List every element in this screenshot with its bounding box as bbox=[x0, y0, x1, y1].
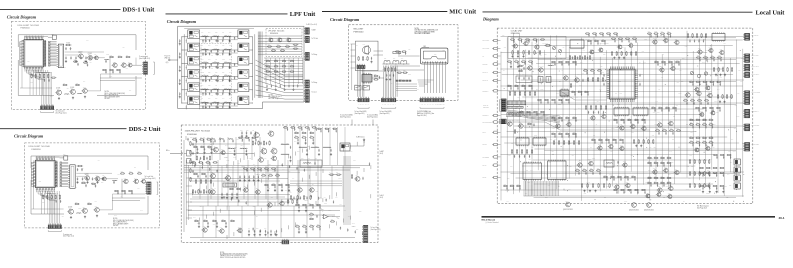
svg-text:TC34: TC34 bbox=[211, 108, 214, 110]
svg-text:MIC Unit: MIC Unit bbox=[449, 9, 477, 16]
Local left connector stub TO DDS-1 bbox=[483, 90, 501, 93]
svg-text:J61: J61 bbox=[648, 156, 650, 158]
LPF row 5 capacitor C53 bbox=[217, 90, 218, 93]
FM final Q3003 bbox=[253, 131, 259, 138]
svg-text:J73: J73 bbox=[598, 144, 600, 146]
svg-text:D34: D34 bbox=[283, 64, 286, 66]
svg-text:J58: J58 bbox=[524, 50, 526, 52]
FM right mid extra cluster bbox=[295, 204, 321, 212]
svg-text:C79: C79 bbox=[211, 172, 214, 174]
svg-text:R82: R82 bbox=[284, 126, 287, 128]
svg-text:L56: L56 bbox=[200, 206, 202, 208]
LPF row 3 capacitor C31 bbox=[205, 63, 206, 66]
svg-text:150W-FM-UNIT NO.5044: 150W-FM-UNIT NO.5044 bbox=[185, 130, 211, 132]
svg-text:C96: C96 bbox=[564, 74, 567, 76]
svg-text:INDUCTORS IN uH UNLESS NOTED.: INDUCTORS IN uH UNLESS NOTED. bbox=[220, 257, 246, 259]
connector J2001 right bbox=[145, 182, 157, 194]
svg-text:TC41: TC41 bbox=[624, 201, 627, 203]
svg-text:TC65: TC65 bbox=[522, 39, 525, 41]
svg-text:L82: L82 bbox=[669, 120, 671, 122]
svg-text:F2944200: F2944200 bbox=[511, 33, 521, 35]
svg-text:D82: D82 bbox=[246, 130, 249, 132]
svg-text:C85: C85 bbox=[365, 59, 368, 61]
svg-text:R63: R63 bbox=[697, 80, 700, 82]
wire bus QFP left side bbox=[31, 162, 33, 186]
wire bus QFP right to RA2001 bbox=[62, 162, 69, 186]
svg-text:D78: D78 bbox=[623, 58, 626, 60]
svg-text:J77: J77 bbox=[658, 89, 660, 91]
svg-text:MIC: MIC bbox=[424, 46, 427, 48]
ground symbols DDS-2 bbox=[70, 215, 98, 219]
svg-text:TO SP: TO SP bbox=[483, 177, 487, 179]
svg-text:J31: J31 bbox=[281, 48, 283, 50]
Local crystal X5001 bbox=[544, 43, 551, 47]
LPF output connector J02 bbox=[304, 36, 309, 42]
svg-text:D34: D34 bbox=[612, 36, 615, 38]
Local coil hump row L5101 bbox=[506, 113, 522, 117]
svg-text:J58: J58 bbox=[62, 216, 64, 218]
Local right quarter cluster S2 bbox=[713, 154, 732, 159]
svg-text:To Local: To Local bbox=[312, 91, 318, 93]
svg-text:C51: C51 bbox=[204, 34, 207, 36]
svg-text:Q66: Q66 bbox=[331, 219, 334, 221]
Local bottom-left wires bbox=[524, 181, 559, 196]
LPF note block bbox=[269, 95, 282, 101]
LPF relay driver diodes bbox=[293, 44, 299, 49]
svg-text:R3: R3 bbox=[273, 183, 275, 185]
svg-text:F3080110: F3080110 bbox=[21, 28, 31, 30]
LPF row 2 capacitor C22 bbox=[211, 50, 212, 53]
FM bottom components bbox=[194, 219, 235, 228]
Local right connector TO MIC UNIT bbox=[743, 124, 759, 131]
DDS-1 extra caps row bbox=[65, 56, 92, 62]
FM scattered vertical stubs bbox=[186, 136, 371, 239]
component box above QFP2 bbox=[60, 154, 68, 160]
FM bottom rail bbox=[190, 238, 355, 241]
transistor Q2003 bbox=[94, 175, 100, 181]
MIC jack front view bbox=[421, 48, 448, 64]
svg-text:TC53: TC53 bbox=[620, 145, 623, 147]
svg-text:R42: R42 bbox=[628, 118, 631, 120]
LPF relay bus horizontals lower bbox=[264, 58, 303, 80]
Local relay column RL5004 bbox=[734, 183, 740, 189]
svg-text:L82: L82 bbox=[268, 44, 270, 46]
svg-text:TC65: TC65 bbox=[633, 36, 636, 38]
svg-text:F3080110: F3080110 bbox=[32, 149, 42, 151]
svg-text:R85: R85 bbox=[658, 121, 661, 123]
svg-text:L79: L79 bbox=[211, 81, 213, 83]
LPF sub unit name bbox=[268, 31, 284, 35]
svg-text:Q70: Q70 bbox=[682, 58, 685, 60]
svg-text:J77: J77 bbox=[577, 74, 579, 76]
svg-text:L62: L62 bbox=[228, 95, 230, 97]
svg-text:J24: J24 bbox=[295, 135, 297, 137]
LPF row 3 inter-row link bbox=[186, 65, 200, 70]
FM extra speckle bbox=[192, 139, 356, 228]
svg-text:Q48: Q48 bbox=[201, 59, 204, 61]
svg-text:L20: L20 bbox=[202, 172, 204, 174]
svg-text:D7: D7 bbox=[683, 201, 685, 203]
svg-text:R62: R62 bbox=[228, 68, 231, 70]
svg-text:Q62: Q62 bbox=[301, 158, 304, 160]
svg-text:Q39: Q39 bbox=[653, 112, 656, 114]
svg-text:TC30: TC30 bbox=[214, 48, 217, 50]
crystal X2001 bbox=[77, 165, 84, 167]
svg-text:R49: R49 bbox=[727, 174, 730, 176]
LPF row 6 value labels bbox=[201, 98, 232, 102]
FM note text block bbox=[220, 252, 249, 259]
LPF row 5 ground symbols bbox=[205, 93, 231, 96]
svg-text:TO SW-1: TO SW-1 bbox=[483, 72, 488, 74]
header rule LPF bbox=[166, 13, 288, 15]
wire bus QFP left bbox=[20, 42, 22, 66]
svg-text:R85: R85 bbox=[235, 147, 238, 149]
svg-text:C76: C76 bbox=[281, 142, 284, 144]
LPF row 6 inductor L62 bbox=[212, 101, 219, 104]
svg-text:D64: D64 bbox=[559, 81, 562, 83]
FM driver matching bbox=[228, 147, 248, 156]
transistor Q2004 bbox=[101, 175, 106, 181]
LPF row 4 capacitor C43 bbox=[217, 76, 218, 79]
svg-text:(See Page 40-1): (See Page 40-1) bbox=[355, 113, 365, 115]
transistor Q1007 bbox=[127, 62, 132, 68]
svg-text:L41: L41 bbox=[583, 50, 585, 52]
LPF row 4 inductor L41 bbox=[202, 75, 209, 78]
Local transistor Q5022 below board bbox=[629, 203, 639, 212]
MIC middle choke T4002 bbox=[393, 58, 399, 64]
svg-text:J95: J95 bbox=[672, 139, 674, 141]
svg-text:J29: J29 bbox=[311, 126, 313, 128]
FM shield box bbox=[223, 181, 237, 187]
FM mid right Q3020 Q3021 bbox=[297, 186, 315, 192]
svg-text:Q1008: Q1008 bbox=[56, 88, 60, 90]
LPF row 4 inter-row link bbox=[186, 78, 200, 83]
svg-text:R62: R62 bbox=[720, 49, 723, 51]
svg-text:C31: C31 bbox=[552, 151, 555, 153]
svg-text:TC30: TC30 bbox=[545, 43, 548, 45]
svg-text:C87: C87 bbox=[717, 80, 720, 82]
svg-text:Q44: Q44 bbox=[676, 104, 679, 106]
svg-text:R65: R65 bbox=[519, 64, 522, 66]
svg-text:Q84: Q84 bbox=[229, 59, 232, 61]
capacitor C1022 bbox=[48, 79, 49, 82]
Local volume ICs bbox=[516, 137, 546, 146]
FM mid extra rows2 bbox=[264, 184, 290, 191]
LPF row 1 relay RL11 left bbox=[188, 30, 200, 39]
svg-text:D18: D18 bbox=[566, 132, 569, 134]
svg-text:D66: D66 bbox=[201, 229, 204, 231]
svg-text:J49: J49 bbox=[324, 197, 326, 199]
svg-text:J16: J16 bbox=[730, 162, 732, 164]
svg-text:J43: J43 bbox=[621, 118, 623, 120]
svg-text:Q5021:2SC1815: Q5021:2SC1815 bbox=[563, 209, 573, 211]
svg-text:R23: R23 bbox=[229, 45, 232, 47]
resistor row R2031 bbox=[43, 195, 61, 200]
wire bus QFP right to RA1001 bbox=[50, 42, 57, 66]
LPF row 5 secondary rail bbox=[200, 92, 238, 96]
svg-text:R16: R16 bbox=[129, 171, 132, 173]
svg-text:D85: D85 bbox=[194, 172, 197, 174]
svg-text:J82: J82 bbox=[535, 112, 537, 114]
svg-text:J38: J38 bbox=[528, 181, 530, 183]
svg-text:R36: R36 bbox=[200, 137, 203, 139]
LPF connector J05 label bbox=[312, 91, 318, 93]
Local bus bar RA5101 bbox=[507, 101, 525, 105]
transistor Q2002 bbox=[84, 173, 90, 180]
svg-text:D21: D21 bbox=[222, 72, 225, 74]
svg-text:L30: L30 bbox=[663, 197, 665, 199]
FM top-left extra RC rows bbox=[192, 137, 212, 143]
svg-text:D87: D87 bbox=[671, 162, 674, 164]
svg-text:R38: R38 bbox=[725, 186, 728, 188]
MIC J4003 label bbox=[417, 110, 434, 117]
crystal X1001 bbox=[65, 42, 72, 45]
svg-text:C43: C43 bbox=[662, 60, 665, 62]
LPF row 2 capacitor C23 bbox=[217, 50, 218, 53]
DDS-1 extra wires right bbox=[100, 58, 142, 81]
svg-text:D26: D26 bbox=[249, 157, 252, 159]
svg-text:Q58: Q58 bbox=[703, 39, 706, 41]
svg-text:D46: D46 bbox=[717, 89, 720, 91]
svg-text:Q66: Q66 bbox=[213, 223, 216, 225]
svg-text:D94: D94 bbox=[578, 108, 581, 110]
LPF row 4 inductor L42 bbox=[212, 75, 219, 78]
svg-text:C49: C49 bbox=[517, 184, 520, 186]
svg-text:J89: J89 bbox=[201, 98, 203, 100]
svg-text:Q2002: Q2002 bbox=[85, 173, 89, 175]
svg-text:MG-5 Manual: MG-5 Manual bbox=[482, 219, 496, 221]
Local top right cluster B bbox=[687, 33, 706, 43]
svg-text:Q36: Q36 bbox=[211, 42, 214, 44]
FM output connector J3001 bbox=[362, 225, 368, 242]
Local right connector TO TX COAX bbox=[743, 64, 759, 71]
svg-text:L72: L72 bbox=[237, 163, 239, 165]
page ref note right bbox=[166, 62, 169, 64]
MIC middle choke T4003 bbox=[401, 58, 407, 64]
Local top-left second row RC bbox=[507, 59, 533, 68]
svg-text:L54: L54 bbox=[517, 120, 519, 122]
svg-text:D98: D98 bbox=[399, 79, 402, 81]
svg-text:TC75: TC75 bbox=[238, 227, 241, 229]
Local J5002 bracket label bbox=[487, 119, 500, 123]
LPF row 1 capacitor C14 bbox=[223, 37, 224, 40]
svg-text:L86: L86 bbox=[719, 100, 721, 102]
svg-text:L88: L88 bbox=[649, 147, 651, 149]
MIC small box above chokes bbox=[393, 52, 404, 55]
svg-text:R51: R51 bbox=[695, 131, 698, 133]
DDS-2 extra wires right bbox=[112, 179, 145, 201]
resistor R2011 bbox=[81, 181, 86, 184]
svg-text:TC28: TC28 bbox=[623, 161, 626, 163]
svg-text:TO DDS-2: TO DDS-2 bbox=[483, 115, 489, 117]
Local left connector stub TO DISP bbox=[483, 63, 501, 66]
svg-text:Q1003: Q1003 bbox=[88, 53, 92, 55]
svg-text:R40: R40 bbox=[580, 62, 583, 64]
LPF row 3 inductor L33 bbox=[224, 61, 231, 64]
LPF relay driver Q101 bbox=[268, 36, 273, 42]
svg-text:L36: L36 bbox=[565, 201, 567, 203]
svg-text:C60: C60 bbox=[711, 135, 714, 137]
svg-text:J77: J77 bbox=[737, 93, 739, 95]
svg-text:TC38: TC38 bbox=[309, 215, 312, 217]
FM extra mid bus bbox=[190, 179, 290, 198]
LPF row 3 relay RL32 right bbox=[238, 56, 249, 65]
svg-text:R74: R74 bbox=[123, 47, 126, 49]
Local bottom center cluster O2 bbox=[603, 175, 636, 181]
svg-text:C99: C99 bbox=[677, 128, 680, 130]
svg-text:D51: D51 bbox=[220, 68, 223, 70]
svg-text:J77: J77 bbox=[226, 174, 228, 176]
svg-text:D80: D80 bbox=[579, 85, 582, 87]
svg-text:R72: R72 bbox=[642, 50, 645, 52]
LPF row 3 capacitor C34 bbox=[223, 63, 224, 66]
svg-text:DDS-1 Unit: DDS-1 Unit bbox=[123, 7, 156, 14]
FM lower network bbox=[221, 187, 241, 199]
LPF left input bus bbox=[181, 34, 187, 103]
svg-text:R22: R22 bbox=[225, 34, 228, 36]
FM mid resistors bbox=[193, 172, 212, 184]
Local bottom mid cluster T2 bbox=[645, 191, 672, 199]
FM driver Q3001 bbox=[212, 146, 218, 153]
svg-text:NOTE:: NOTE: bbox=[220, 252, 225, 254]
svg-text:Q47: Q47 bbox=[220, 108, 223, 110]
LPF row 2 relay RL21 left bbox=[188, 43, 200, 52]
svg-text:J65: J65 bbox=[287, 36, 289, 38]
svg-text:C24: C24 bbox=[707, 170, 710, 172]
LPF row 2 inductor L22 bbox=[212, 48, 219, 51]
svg-text:L20: L20 bbox=[83, 207, 85, 209]
svg-text:TC66: TC66 bbox=[222, 59, 225, 61]
svg-text:J42: J42 bbox=[633, 143, 635, 145]
svg-text:L14: L14 bbox=[705, 98, 707, 100]
svg-text:D44: D44 bbox=[225, 144, 228, 146]
LPF row 1 inductor L13 bbox=[224, 35, 231, 38]
svg-text:Q75: Q75 bbox=[668, 193, 671, 195]
svg-text:Q84: Q84 bbox=[401, 58, 404, 60]
svg-text:R98: R98 bbox=[88, 202, 91, 204]
svg-text:C79: C79 bbox=[277, 44, 280, 46]
svg-text:J62: J62 bbox=[317, 224, 319, 226]
svg-text:D21: D21 bbox=[300, 190, 303, 192]
svg-text:L43: L43 bbox=[335, 169, 337, 171]
svg-text:D43: D43 bbox=[245, 151, 248, 153]
MIC element symbol bbox=[363, 44, 371, 55]
LPF row 1 ground symbols bbox=[205, 40, 231, 43]
svg-text:L44: L44 bbox=[578, 161, 580, 163]
svg-text:40-1: 40-1 bbox=[779, 216, 785, 220]
svg-text:R48: R48 bbox=[609, 174, 612, 176]
svg-text:C50: C50 bbox=[502, 35, 505, 37]
svg-text:D36: D36 bbox=[576, 168, 579, 170]
svg-text:Q81: Q81 bbox=[426, 59, 429, 61]
svg-text:J60: J60 bbox=[648, 161, 650, 163]
Local left connector stub 8V bbox=[483, 55, 501, 58]
svg-text:Q71: Q71 bbox=[223, 181, 226, 183]
svg-text:D83: D83 bbox=[604, 175, 607, 177]
FM swr detector bbox=[300, 158, 322, 167]
svg-text:R27: R27 bbox=[215, 98, 218, 100]
svg-text:D36: D36 bbox=[393, 58, 396, 60]
svg-text:J65: J65 bbox=[365, 225, 367, 227]
Local top-left lower RC bbox=[511, 50, 540, 58]
svg-text:L33: L33 bbox=[641, 73, 643, 75]
LPF row 3 secondary rail bbox=[200, 66, 238, 70]
MIC up-down switch S4001 bbox=[355, 84, 362, 90]
svg-text:R14: R14 bbox=[699, 96, 702, 98]
svg-text:J76: J76 bbox=[202, 55, 204, 57]
Local top mid IC U5001 bbox=[570, 39, 584, 49]
MIC bottom connector J4003 bbox=[420, 97, 444, 102]
LPF row 2 signal rail bbox=[200, 49, 238, 52]
svg-text:J12: J12 bbox=[398, 70, 400, 72]
svg-text:R10: R10 bbox=[661, 156, 664, 158]
svg-text:C71: C71 bbox=[601, 43, 604, 45]
svg-text:C1: C1 bbox=[591, 114, 593, 116]
svg-text:TC31: TC31 bbox=[617, 104, 620, 106]
svg-text:Q61: Q61 bbox=[194, 140, 197, 142]
svg-text:KEYER: KEYER bbox=[113, 225, 119, 227]
svg-text:Q28: Q28 bbox=[113, 61, 116, 63]
svg-text:D3: D3 bbox=[528, 64, 530, 66]
svg-text:TC34: TC34 bbox=[678, 93, 681, 95]
LPF row 6 relay RL62 right bbox=[238, 96, 249, 105]
svg-text:R77: R77 bbox=[655, 60, 658, 62]
Local top-left RC network bbox=[510, 37, 545, 43]
footer page number 40-1 bbox=[779, 216, 785, 220]
svg-text:L59: L59 bbox=[220, 227, 222, 229]
svg-text:J17: J17 bbox=[231, 219, 233, 221]
svg-text:L66: L66 bbox=[548, 185, 550, 187]
FM lower bus bbox=[190, 199, 300, 202]
FM right vertical bus bbox=[344, 156, 350, 225]
svg-text:Q81: Q81 bbox=[711, 55, 714, 57]
svg-text:Q31: Q31 bbox=[195, 219, 198, 221]
svg-text:TC83: TC83 bbox=[328, 209, 331, 211]
svg-text:C54: C54 bbox=[228, 55, 231, 57]
MIC left extra wires bbox=[351, 44, 356, 90]
svg-text:L54: L54 bbox=[83, 81, 85, 83]
Local upper mid extra U1 bbox=[585, 33, 618, 37]
title LPF Unit bbox=[290, 11, 316, 18]
header rule DDS-2 bbox=[0, 128, 127, 130]
DDS-2 extra caps row bbox=[76, 177, 103, 183]
Local right connector TO SW UNIT bbox=[743, 143, 759, 152]
svg-text:R19: R19 bbox=[202, 95, 205, 97]
svg-text:L83: L83 bbox=[225, 101, 227, 103]
svg-text:R85: R85 bbox=[258, 174, 261, 176]
svg-text:D33: D33 bbox=[702, 62, 705, 64]
FM mid stage Q3011 bbox=[224, 174, 230, 181]
svg-text:J25: J25 bbox=[272, 48, 274, 50]
svg-text:TO SW UNIT: TO SW UNIT bbox=[752, 144, 760, 146]
svg-text:C20: C20 bbox=[667, 161, 670, 163]
capacitor C2012 bbox=[95, 184, 96, 187]
IC Q1001 DDS chip QFP bbox=[22, 38, 45, 69]
svg-text:(See Page 40-1): (See Page 40-1) bbox=[139, 58, 151, 60]
Local right quarter cluster S3 bbox=[699, 167, 724, 177]
Local right mid cluster I bbox=[683, 90, 712, 105]
svg-text:TC77: TC77 bbox=[736, 116, 739, 118]
Local relay column RL5001 bbox=[734, 159, 740, 165]
MIC mid horizontal bus bbox=[396, 84, 417, 91]
Local right connector TO DISPLAY bbox=[743, 109, 759, 118]
FM mid extra rows bbox=[243, 168, 276, 172]
DDS-2 board outline bbox=[31, 156, 148, 214]
svg-text:L39: L39 bbox=[703, 140, 705, 142]
wire to connector J1001 bbox=[132, 58, 142, 66]
Local IC U5005 DIP bbox=[523, 162, 542, 181]
svg-text:R56: R56 bbox=[654, 147, 657, 149]
